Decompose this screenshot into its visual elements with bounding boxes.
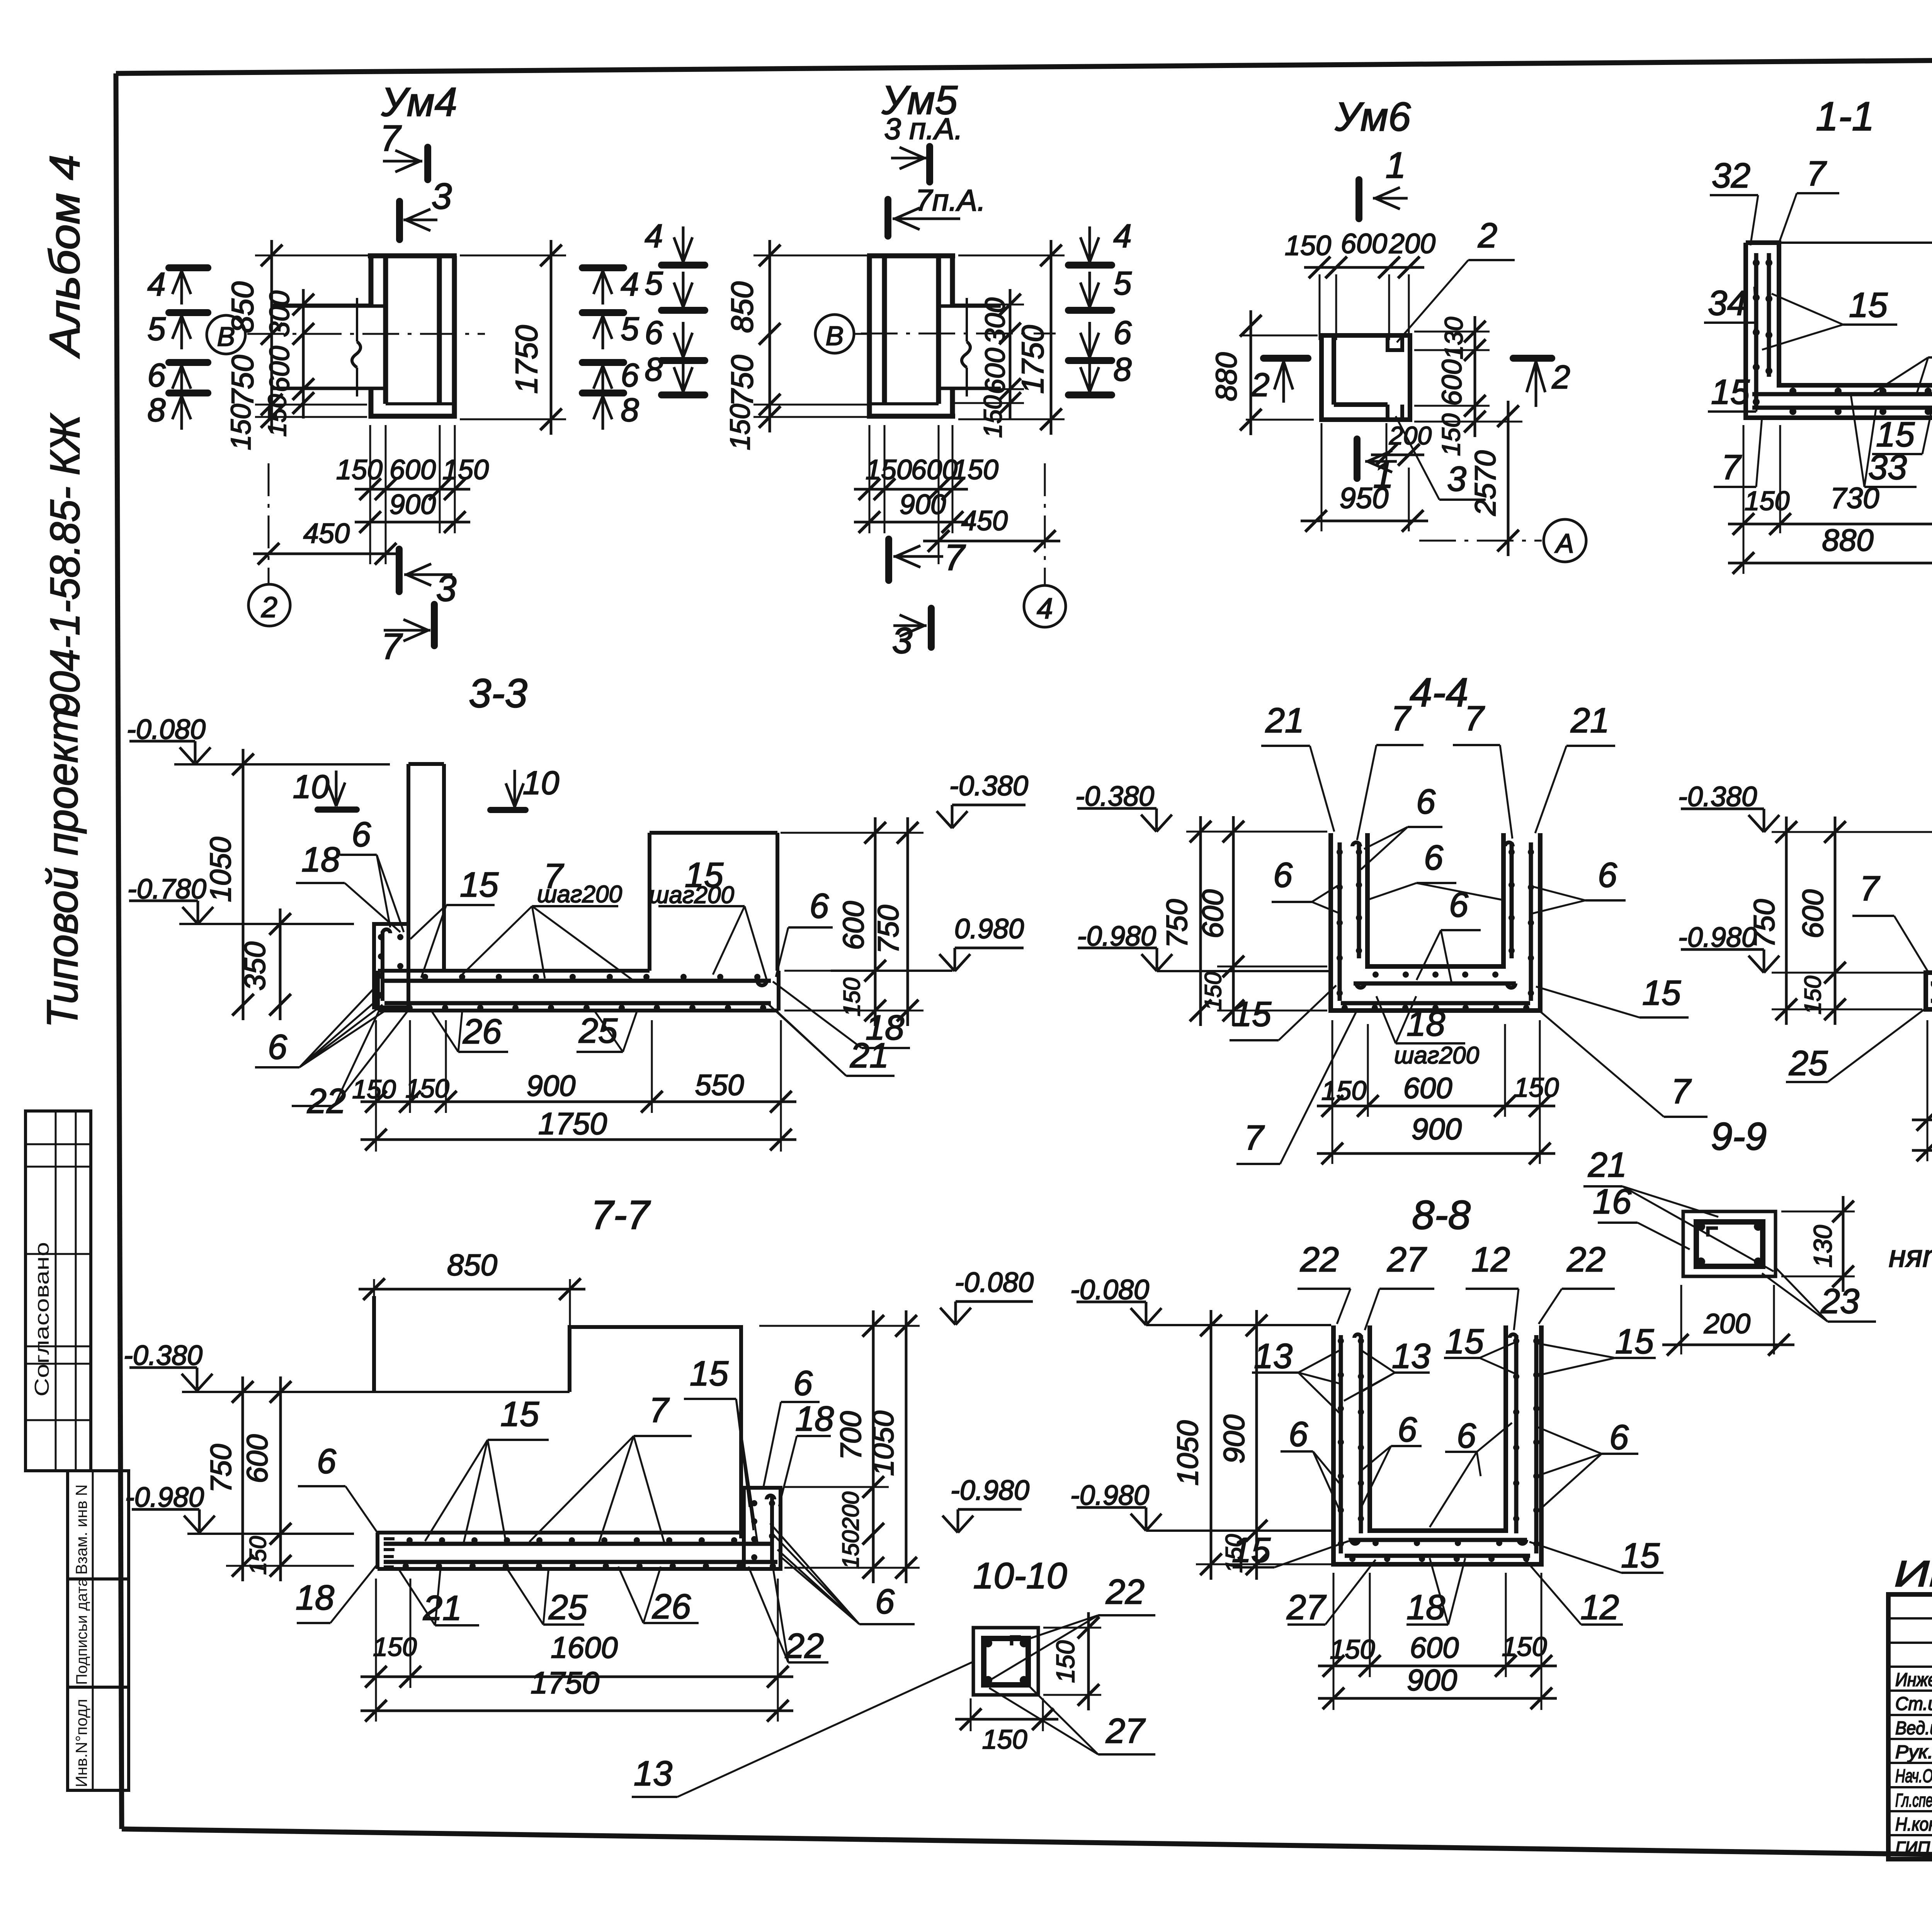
svg-text:450: 450 (303, 518, 350, 549)
section 8-8 bottom chain 150/600/150 and 900 (1318, 1665, 1557, 1667)
svg-text:6: 6 (1457, 1417, 1476, 1455)
svg-text:7: 7 (380, 118, 402, 159)
plan Ум5 left dimension chain 850/750/150 (769, 240, 771, 432)
section 4-4 left wall rebar (1338, 842, 1342, 1001)
svg-text:-0.380: -0.380 (1075, 781, 1154, 812)
section 10-10 dimension 150 bottom (955, 1718, 1058, 1721)
svg-text:-0.980: -0.980 (1070, 1480, 1149, 1511)
svg-text:880: 880 (1822, 523, 1873, 557)
section 7-7 slab top rebar (384, 1542, 773, 1546)
svg-text:32: 32 (1712, 157, 1750, 195)
section 1-1 wall rebar dots (1753, 259, 1760, 266)
svg-text:21: 21 (423, 1589, 462, 1628)
svg-text:3: 3 (1447, 460, 1466, 498)
svg-text:6: 6 (147, 357, 166, 394)
svg-text:34: 34 (1708, 284, 1747, 323)
svg-text:6: 6 (317, 1442, 337, 1481)
svg-text:350: 350 (239, 942, 272, 991)
plan Ум4 dimension 450 to axis 2 (253, 553, 401, 555)
plan Ум4 axis circle В (207, 315, 245, 354)
svg-text:7: 7 (944, 537, 966, 578)
svg-text:ГИП: ГИП (1895, 1838, 1930, 1859)
svg-text:12: 12 (1471, 1240, 1510, 1279)
svg-text:550: 550 (695, 1069, 744, 1102)
plan Ум5 centerline (861, 333, 1056, 335)
section 7-7 dimension 850 top (359, 1288, 585, 1291)
svg-text:200: 200 (838, 1492, 864, 1531)
svg-text:15: 15 (690, 1354, 729, 1393)
plan Ум5 section marker 3 bottom (928, 608, 935, 647)
section 3-3 left wall with rebar (374, 924, 408, 1007)
svg-text:-0.980: -0.980 (125, 1482, 204, 1513)
svg-text:13: 13 (634, 1754, 672, 1793)
svg-text:13: 13 (1392, 1337, 1430, 1376)
svg-text:15: 15 (460, 866, 499, 904)
svg-text:150: 150 (226, 404, 257, 450)
svg-text:15: 15 (1711, 373, 1750, 412)
svg-text:600: 600 (980, 348, 1011, 394)
svg-text:7п.А.: 7п.А. (915, 183, 986, 217)
plan Ум4 right dimension 1750 (550, 240, 553, 435)
plan Ум6 dimension 950 (1301, 520, 1428, 522)
svg-text:10: 10 (293, 769, 330, 805)
svg-text:7: 7 (1244, 1119, 1265, 1157)
svg-text:-0.380: -0.380 (949, 771, 1028, 801)
svg-text:3: 3 (892, 620, 913, 661)
svg-text:-0.080: -0.080 (955, 1267, 1034, 1298)
svg-text:15: 15 (500, 1395, 539, 1434)
svg-text:22: 22 (307, 1082, 346, 1121)
section 7-7 slab bottom rebar (384, 1560, 777, 1564)
svg-text:33: 33 (1868, 448, 1907, 487)
svg-text:200: 200 (1389, 421, 1432, 450)
plan Ум6 outline (1321, 335, 1410, 420)
plan Ум6 dimension 200 bottom (1371, 454, 1424, 456)
svg-text:18: 18 (1406, 1005, 1445, 1043)
svg-text:8: 8 (1113, 351, 1131, 388)
svg-text:7: 7 (1464, 699, 1485, 738)
section 9-9 column box (1683, 1211, 1776, 1276)
svg-text:23: 23 (1820, 1282, 1859, 1321)
svg-text:3: 3 (436, 568, 457, 609)
svg-text:10-10: 10-10 (973, 1555, 1067, 1596)
svg-text:2: 2 (261, 591, 277, 623)
svg-text:1: 1 (1386, 145, 1406, 186)
section 3-3 left column outline (406, 764, 410, 971)
svg-text:1050: 1050 (204, 837, 237, 902)
section 3-3 level 0.980 right (954, 948, 956, 969)
svg-text:8: 8 (645, 351, 663, 388)
plan Ум4 bottom dimension 900 (355, 521, 470, 524)
svg-text:2570: 2570 (1469, 450, 1502, 516)
plan Ум6 section marker 1 top (1355, 180, 1362, 219)
svg-text:6: 6 (1289, 1415, 1308, 1454)
svg-text:904-1-58.85- КЖ: 904-1-58.85- КЖ (41, 413, 88, 716)
svg-text:22: 22 (1300, 1240, 1339, 1279)
svg-text:Рук. гр.: Рук. гр. (1895, 1742, 1932, 1763)
svg-text:-0.780: -0.780 (128, 874, 206, 905)
left side table Согласовано (26, 1111, 91, 1471)
svg-text:600: 600 (911, 454, 957, 485)
svg-text:15: 15 (1642, 974, 1681, 1012)
svg-text:6: 6 (1598, 856, 1617, 895)
svg-text:600: 600 (1410, 1632, 1459, 1664)
svg-text:150: 150 (1051, 1640, 1080, 1683)
section 7-7 right chains 700/200/150 and 1050 (872, 1310, 875, 1583)
section 3-3 marker 10 right (490, 807, 526, 813)
svg-text:26: 26 (463, 1012, 502, 1051)
plan Ум4 outline (368, 253, 457, 259)
svg-text:7: 7 (1671, 1072, 1692, 1111)
section 1-1 base rebar dots (1789, 388, 1796, 395)
svg-text:7: 7 (1806, 155, 1827, 193)
svg-text:Гл.спец.т.о: Гл.спец.т.о (1895, 1790, 1932, 1811)
svg-text:-0.980: -0.980 (951, 1475, 1029, 1506)
section 9-9 dimension 200 (1662, 1344, 1794, 1346)
plan Ум6 axis circle А (1544, 519, 1586, 562)
svg-text:15: 15 (1233, 995, 1272, 1034)
plan Ум5 dimension 450 to axis 4 (923, 540, 1060, 543)
plan Ум6 left marker 2 up arrow (1264, 355, 1308, 362)
svg-text:150: 150 (978, 395, 1007, 438)
svg-text:Вед.инж.: Вед.инж. (1895, 1718, 1932, 1739)
section 3-3 base slab outline (378, 969, 650, 973)
svg-text:А: А (1554, 528, 1574, 558)
svg-text:150: 150 (405, 1074, 449, 1103)
svg-text:200: 200 (1389, 228, 1435, 259)
svg-text:18: 18 (795, 1400, 834, 1438)
plan Ум6 top chain 150/600/200 (1304, 266, 1424, 269)
section 3-3 level -0.780 (179, 923, 354, 925)
svg-text:шаг200: шаг200 (649, 882, 734, 909)
svg-text:130: 130 (1439, 317, 1468, 359)
svg-text:16: 16 (1593, 1182, 1632, 1221)
drawing frame border (116, 55, 1932, 73)
svg-text:6: 6 (810, 887, 829, 926)
section 10-10 dimension 150 right (1087, 1612, 1090, 1710)
svg-text:150: 150 (838, 1530, 864, 1569)
svg-text:6: 6 (621, 357, 639, 394)
svg-text:700: 700 (835, 1411, 867, 1460)
svg-text:2: 2 (1478, 216, 1497, 255)
svg-text:850: 850 (225, 281, 260, 333)
section 3-3 base top rebar (384, 979, 771, 983)
svg-text:730: 730 (1830, 482, 1879, 515)
svg-text:900: 900 (389, 489, 436, 520)
svg-text:1750: 1750 (509, 325, 544, 394)
svg-text:600: 600 (389, 454, 436, 485)
svg-text:1050: 1050 (1172, 1420, 1204, 1485)
svg-text:6: 6 (1449, 886, 1469, 924)
svg-text:750: 750 (225, 355, 260, 406)
section 10-10 column box (973, 1628, 1038, 1695)
svg-text:Инженер: Инженер (1895, 1670, 1932, 1690)
plan Ум5 outline (867, 253, 955, 259)
svg-text:Взам. инв N: Взам. инв N (72, 1484, 90, 1575)
svg-text:5: 5 (621, 311, 639, 347)
left side table Взам.инв / Подпись и дата / Инв.№ подл (68, 1471, 129, 1790)
plan Ум6 left dimension 880 (1250, 310, 1252, 435)
svg-text:1-1: 1-1 (1816, 94, 1874, 139)
svg-text:1750: 1750 (1015, 325, 1050, 394)
svg-text:6: 6 (1113, 315, 1132, 351)
svg-text:2: 2 (1551, 359, 1570, 396)
svg-text:8-8: 8-8 (1412, 1193, 1471, 1238)
svg-text:150: 150 (725, 404, 756, 450)
svg-text:27: 27 (1387, 1240, 1427, 1279)
svg-text:Н.контр.: Н.контр. (1895, 1814, 1932, 1835)
plan Ум5 bottom chain 150/600/150 (854, 488, 968, 491)
svg-text:13: 13 (1254, 1337, 1293, 1376)
svg-text:3 п.А.: 3 п.А. (884, 112, 963, 146)
plan Ум4 axis line to circle 2 (268, 463, 270, 584)
svg-text:21: 21 (1265, 701, 1304, 740)
svg-text:10: 10 (523, 765, 560, 801)
svg-text:1600: 1600 (551, 1630, 618, 1664)
svg-text:5: 5 (147, 311, 166, 347)
section 4-4 level -0.980 left (1156, 948, 1158, 969)
section 7-7 bottom chains 150/1600 and 1750 (361, 1676, 793, 1678)
svg-text:Нач.ОСП-1: Нач.ОСП-1 (1895, 1766, 1932, 1786)
svg-text:12: 12 (1580, 1588, 1619, 1627)
svg-text:150: 150 (1514, 1072, 1559, 1102)
svg-text:0.980: 0.980 (954, 914, 1024, 944)
section 3-3 base bottom rebar (384, 1001, 771, 1005)
svg-text:шаг200: шаг200 (1394, 1042, 1479, 1069)
svg-text:150: 150 (1330, 1634, 1375, 1664)
plan Ум6 right marker 2 up arrow (1513, 355, 1552, 362)
section 7-7 right wall box with rebar (744, 1488, 781, 1569)
signature table block (1888, 1594, 1932, 1859)
svg-text:600: 600 (1197, 890, 1230, 939)
svg-text:6: 6 (1398, 1410, 1417, 1449)
plan Ум4 centerline (247, 333, 485, 335)
plan Ум4 inner dimension chain 300/600/150 (302, 289, 305, 419)
plan Ум5 right markers 4,5,6,8 down arrows (1068, 262, 1112, 269)
svg-text:900: 900 (1412, 1112, 1462, 1146)
svg-text:-0.080: -0.080 (1070, 1274, 1149, 1305)
svg-text:750: 750 (872, 905, 905, 954)
svg-text:150: 150 (263, 394, 291, 437)
svg-text:15: 15 (1232, 1531, 1271, 1570)
section 7-7 slab outline (378, 1531, 744, 1535)
svg-text:Подписьи дата: Подписьи дата (73, 1578, 90, 1685)
svg-text:150: 150 (336, 454, 383, 485)
svg-text:750: 750 (1161, 899, 1194, 948)
svg-text:21: 21 (1588, 1146, 1627, 1184)
svg-text:Ст.инж.: Ст.инж. (1895, 1694, 1932, 1714)
svg-text:150: 150 (952, 454, 998, 485)
svg-text:6: 6 (1424, 839, 1444, 877)
section 3-3 level -0.380 right (951, 805, 954, 826)
svg-text:130: 130 (1808, 1225, 1837, 1267)
svg-text:6: 6 (875, 1582, 895, 1621)
svg-text:4-4: 4-4 (1410, 670, 1468, 715)
svg-text:880: 880 (1210, 352, 1243, 402)
svg-text:950: 950 (1340, 482, 1389, 515)
section 1-1 bottom chain 150/730 (1728, 523, 1932, 526)
section 8-8 base rebar (1349, 1538, 1527, 1542)
plan Ум4 bottom dimension chain 150/600/150 (355, 488, 470, 491)
svg-text:-0.080: -0.080 (127, 714, 206, 745)
section 8-8 level -0.980 left (1145, 1507, 1148, 1528)
svg-text:26: 26 (652, 1587, 691, 1626)
svg-text:6: 6 (793, 1364, 813, 1403)
section 8-8 left chains 900/150 and 1050 (1210, 1310, 1213, 1580)
svg-text:150: 150 (982, 1724, 1027, 1754)
svg-text:750: 750 (205, 1444, 238, 1493)
svg-text:15: 15 (1445, 1322, 1484, 1361)
section 5-5 bottom chains 600/150 and 750 (1912, 1119, 1932, 1121)
section 4-4 U-shape concrete outline (1331, 833, 1540, 1011)
svg-text:25: 25 (1789, 1044, 1828, 1083)
plan Ум4 section marker 7 top (424, 147, 431, 180)
svg-text:1750: 1750 (531, 1666, 599, 1700)
svg-text:6: 6 (352, 815, 371, 854)
svg-text:Ум6: Ум6 (1335, 94, 1411, 140)
svg-text:6: 6 (645, 315, 663, 351)
svg-text:150: 150 (1321, 1075, 1367, 1106)
svg-text:6: 6 (1273, 856, 1293, 895)
section 7-7 foundation profile outline (372, 1296, 376, 1392)
plan Ум4 right markers 4,5,6,8 up arrows (582, 264, 624, 271)
svg-text:Согласовано: Согласовано (31, 1242, 53, 1397)
svg-text:7-7: 7-7 (591, 1193, 651, 1238)
section 7-7 level -0.080 right (954, 1302, 957, 1322)
svg-text:-0.380: -0.380 (1678, 781, 1757, 812)
plan Ум5 section marker 7 п.А. (884, 199, 891, 236)
svg-text:150: 150 (1285, 230, 1331, 261)
section 1-1 base rebar bars (1752, 392, 1932, 396)
plan Ум5 section marker 3 п.А. top (926, 146, 933, 182)
svg-text:150: 150 (1745, 486, 1790, 516)
plan Ум5 axis circle В (815, 315, 854, 353)
svg-text:4: 4 (621, 266, 639, 303)
svg-text:5: 5 (645, 265, 663, 302)
plan Ум5 bottom dimension 900 (854, 521, 968, 524)
section 7-7 level -0.980 left (198, 1509, 201, 1530)
svg-text:18: 18 (296, 1579, 334, 1617)
plan Ум5 neighbouring foundation break (940, 305, 1001, 308)
svg-text:150: 150 (1502, 1632, 1547, 1662)
svg-text:7: 7 (1860, 869, 1880, 908)
svg-text:900: 900 (1407, 1663, 1457, 1697)
section 3-3 right column outline (648, 833, 651, 971)
plan Ум4 neighbouring foundation with break line (270, 305, 383, 308)
svg-text:7: 7 (381, 626, 403, 667)
svg-text:-0.980: -0.980 (1077, 921, 1156, 952)
section 7-7 level -0.980 right (957, 1509, 959, 1530)
svg-text:27: 27 (1105, 1712, 1146, 1751)
svg-text:3-3: 3-3 (469, 671, 527, 716)
plan Ум6 bottom-right embedded detail 3 (1386, 405, 1389, 420)
plan Ум5 axis circle 4 (1024, 585, 1066, 627)
svg-text:-0.380: -0.380 (124, 1340, 202, 1371)
svg-text:25: 25 (548, 1588, 588, 1627)
plan Ум6 dimension 2570 and axis А (1507, 401, 1510, 556)
svg-text:7: 7 (649, 1391, 670, 1430)
section 1-1 level -0.080 (1779, 242, 1932, 244)
svg-text:Альбом 4: Альбом 4 (41, 155, 88, 359)
svg-text:21: 21 (850, 1036, 889, 1075)
plan Ум4 section marker 3 top (396, 201, 403, 240)
svg-text:200: 200 (1704, 1308, 1750, 1339)
svg-text:5: 5 (1113, 265, 1132, 302)
svg-text:22: 22 (1105, 1573, 1145, 1611)
svg-text:600: 600 (837, 901, 870, 950)
svg-text:Инв.N°подл: Инв.N°подл (72, 1699, 90, 1787)
section 7-7 left chains 750 and 600/150 (241, 1376, 244, 1581)
svg-text:1050: 1050 (867, 1410, 900, 1476)
svg-text:7: 7 (1721, 448, 1742, 487)
svg-text:600: 600 (264, 346, 295, 392)
section 3-3 dimension 350 (279, 909, 282, 1020)
svg-text:18: 18 (301, 840, 340, 879)
svg-text:850: 850 (725, 281, 759, 333)
section 4-4 base rebar (1354, 982, 1516, 986)
svg-text:22: 22 (785, 1627, 824, 1666)
svg-text:300: 300 (264, 291, 295, 337)
section 5-5 base rebar (1931, 982, 1932, 986)
svg-text:8: 8 (621, 392, 639, 429)
svg-text:22: 22 (1566, 1240, 1605, 1279)
svg-text:В: В (826, 321, 844, 351)
plan Ум5 right inner chain 300/600/150 (1009, 289, 1012, 419)
section 8-8 U-shape concrete outline (1333, 1325, 1541, 1564)
plan Ум6 section marker 1 bottom (1354, 439, 1361, 478)
section 4-4 level -0.380 left (1155, 808, 1158, 829)
svg-text:6: 6 (1416, 783, 1436, 821)
svg-text:9-9: 9-9 (1711, 1115, 1767, 1158)
section 4-4 right wall rebar (1529, 842, 1533, 1001)
plan Ум5 right dimension 1750 (1050, 240, 1053, 435)
svg-text:15: 15 (1621, 1536, 1660, 1575)
svg-text:7: 7 (1391, 699, 1412, 738)
svg-text:150: 150 (866, 454, 912, 485)
section 1-1 concrete outline L-shape (1746, 243, 1932, 418)
svg-text:4: 4 (645, 218, 663, 255)
svg-text:Инв. № 8920/4: Инв. № 8920/4 (1894, 1553, 1932, 1594)
svg-text:2: 2 (1251, 367, 1269, 403)
svg-text:600: 600 (1403, 1072, 1452, 1105)
section 3-3 marker 10 left (318, 806, 357, 813)
svg-text:600: 600 (1437, 359, 1468, 406)
svg-text:850: 850 (447, 1248, 497, 1282)
section 5-5 level -0.980 left (1763, 949, 1765, 970)
plan Ум6 top-right notch detail 2 (1388, 337, 1402, 350)
svg-text:4: 4 (1113, 218, 1131, 255)
svg-text:Типовой проект: Типовой проект (38, 708, 87, 1028)
section 3-3 level -0.080 (174, 763, 390, 766)
svg-text:600: 600 (1341, 228, 1387, 259)
section 3-3 right chains 600/750/150 (874, 817, 877, 1026)
section 8-8 level -0.080 left (1145, 1302, 1148, 1323)
svg-text:15: 15 (1849, 286, 1888, 325)
svg-text:1750: 1750 (538, 1106, 607, 1141)
plan Ум4 section marker 3 bottom (396, 549, 403, 592)
svg-text:750: 750 (725, 355, 759, 406)
svg-text:6: 6 (268, 1028, 287, 1067)
section 1-1 bottom dimension 880 (1728, 562, 1932, 565)
section 9-9 dimension 130 (1842, 1196, 1845, 1292)
svg-text:6: 6 (1609, 1418, 1629, 1457)
svg-text:нят 25мм.: нят 25мм. (1889, 1239, 1932, 1273)
svg-text:150: 150 (352, 1075, 396, 1104)
svg-text:600: 600 (1797, 890, 1830, 939)
section 1-1 wall rebar bars (1754, 253, 1759, 408)
svg-text:450: 450 (961, 505, 1008, 536)
section 8-8 right wall rebar (1534, 1335, 1539, 1553)
